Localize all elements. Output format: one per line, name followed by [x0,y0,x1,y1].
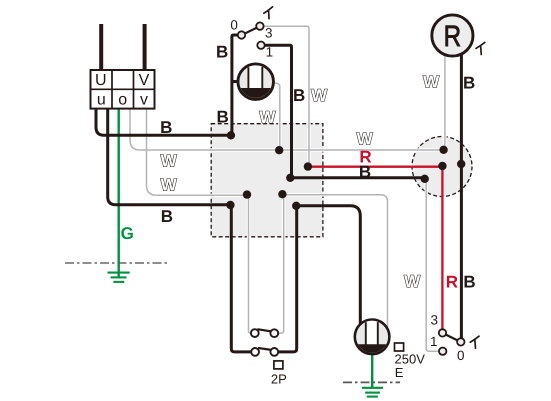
svg-text:0: 0 [457,348,465,363]
svg-text:W: W [404,272,421,291]
svg-text:B: B [217,108,229,127]
svg-text:o: o [118,92,127,109]
svg-text:W: W [423,72,440,91]
svg-text:3: 3 [265,26,273,41]
svg-text:0: 0 [230,17,238,32]
svg-text:3: 3 [430,312,438,327]
svg-text:W: W [161,151,178,170]
svg-text:2P: 2P [271,371,287,386]
svg-text:R: R [359,148,371,167]
svg-text:U: U [95,72,107,89]
svg-text:1: 1 [430,334,438,349]
svg-text:B: B [161,207,173,226]
svg-text:G: G [121,224,134,243]
svg-text:B: B [216,42,228,61]
svg-text:W: W [311,86,328,105]
svg-text:W: W [161,175,178,194]
svg-text:1: 1 [266,45,274,60]
svg-text:v: v [140,92,148,109]
svg-text:B: B [160,118,172,137]
svg-text:R: R [444,20,462,53]
svg-text:V: V [139,72,150,89]
svg-text:W: W [357,129,374,148]
svg-text:B: B [463,73,475,92]
svg-text:B: B [463,273,475,292]
svg-text:u: u [97,92,106,109]
svg-text:B: B [293,86,305,105]
svg-text:R: R [446,273,458,292]
svg-text:W: W [259,108,276,127]
svg-text:E: E [395,365,404,380]
